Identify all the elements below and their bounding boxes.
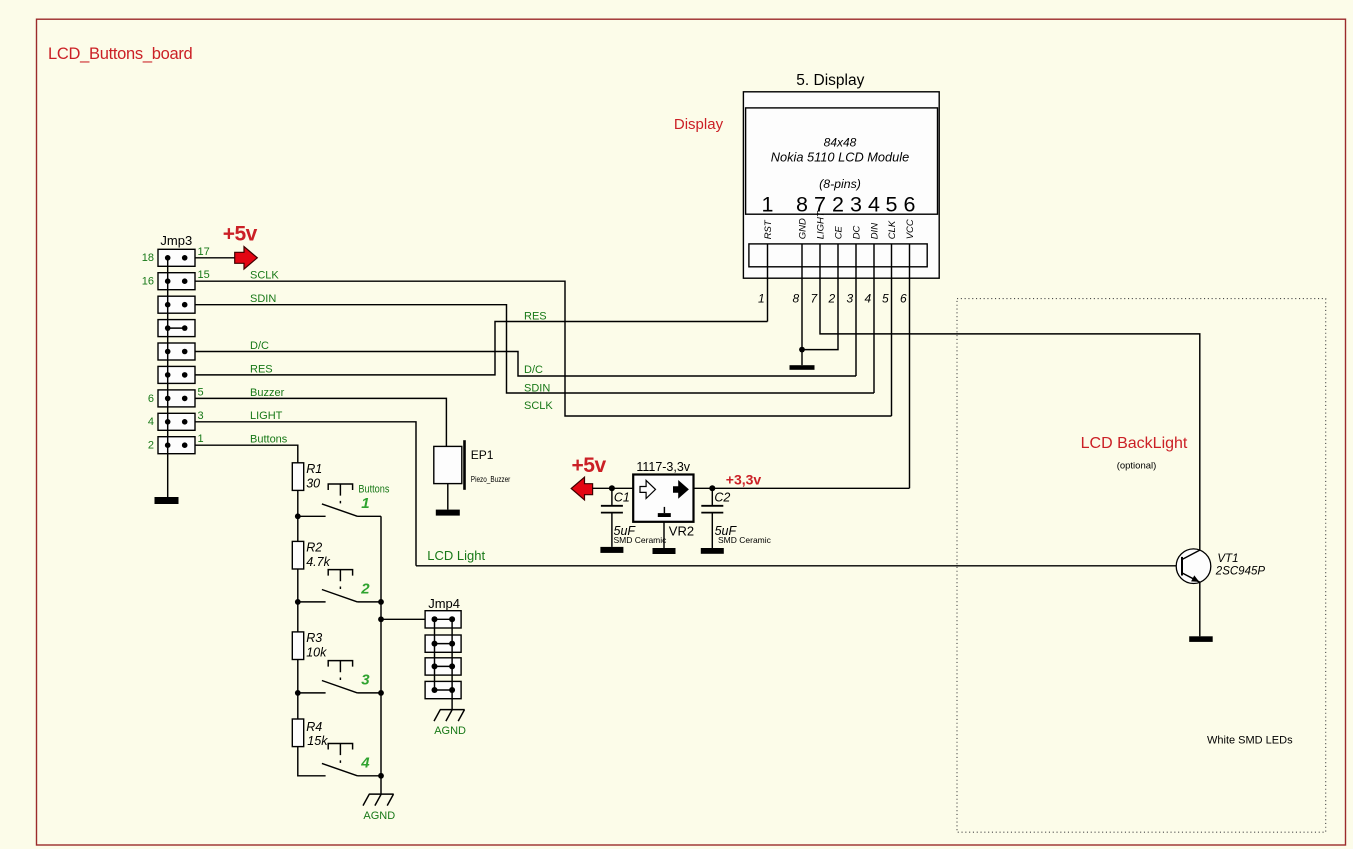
ground AGND Jmp4: [434, 710, 465, 722]
resistor R2: [292, 541, 303, 569]
wire Buttons: [195, 445, 298, 463]
wire pin3 DC: [855, 244, 857, 376]
wire EP1 to ground: [447, 484, 449, 510]
svg-text:5: 5: [198, 386, 204, 398]
svg-text:LCD_Buttons_board: LCD_Buttons_board: [48, 45, 193, 63]
svg-text:5. Display: 5. Display: [796, 72, 864, 89]
ground VR2: [653, 548, 676, 554]
wire VT1 emitter to ground: [1199, 582, 1201, 636]
wire +5v to VR2 input: [593, 487, 634, 489]
svg-text:R1: R1: [306, 462, 322, 476]
LCD connector strip: [749, 244, 927, 267]
svg-text:+5v: +5v: [223, 222, 258, 245]
svg-text:6: 6: [148, 393, 154, 405]
svg-text:6: 6: [900, 292, 907, 306]
connector Jmp4 row 2: [425, 635, 461, 652]
resistor R4: [292, 719, 303, 747]
svg-text:1: 1: [361, 495, 369, 512]
svg-text:2: 2: [828, 292, 836, 306]
svg-text:8: 8: [796, 193, 808, 217]
svg-text:Buttons: Buttons: [358, 483, 389, 495]
wire RES: [195, 322, 768, 375]
ground VT1: [1189, 636, 1213, 642]
svg-text:GND: GND: [797, 218, 808, 239]
svg-text:DIN: DIN: [869, 223, 880, 240]
capacitor C1: [611, 488, 613, 505]
connector Jmp3 row jumper closed: [158, 320, 195, 337]
wire pin2 CE to ground node: [802, 244, 838, 350]
svg-text:4: 4: [865, 292, 872, 306]
svg-text:4: 4: [868, 193, 880, 217]
connector Jmp4 row 3: [425, 658, 461, 675]
wire R4 to switch 4: [298, 747, 326, 776]
regulator VR2 body: [633, 475, 693, 522]
svg-text:2SC945P: 2SC945P: [1215, 565, 1266, 577]
LCD module U-display outer body: [743, 92, 939, 278]
svg-text:SCLK: SCLK: [524, 400, 553, 412]
svg-text:R3: R3: [306, 631, 322, 645]
VR2 input hollow arrow: [640, 480, 656, 498]
VR2 output filled arrow: [673, 480, 689, 499]
wire pin6 VCC: [909, 244, 911, 488]
ground AGND buttons: [363, 794, 394, 806]
ground Jmp3: [155, 497, 179, 504]
svg-text:SCLK: SCLK: [250, 270, 279, 282]
svg-text:1: 1: [762, 193, 774, 217]
svg-text:17: 17: [198, 246, 210, 258]
svg-text:84x48: 84x48: [824, 135, 857, 149]
connector Jmp3 row 15/16: [158, 273, 195, 290]
ground display GND: [801, 350, 803, 366]
wire Buzzer: [195, 398, 446, 446]
svg-text:Nokia 5110 LCD Module: Nokia 5110 LCD Module: [771, 150, 909, 165]
connector Jmp3 row RES: [158, 366, 195, 383]
svg-text:Jmp4: Jmp4: [428, 596, 460, 611]
svg-text:AGND: AGND: [434, 725, 466, 737]
svg-text:CE: CE: [833, 225, 844, 239]
node Jmp4 branch: [378, 616, 384, 622]
LCD module inner screen box: [746, 108, 938, 214]
wire D/C: [195, 352, 856, 377]
svg-text:C2: C2: [714, 490, 730, 504]
svg-text:R2: R2: [306, 541, 322, 555]
svg-text:VR2: VR2: [669, 523, 694, 538]
svg-text:3: 3: [361, 672, 370, 689]
wire LIGHT: [195, 422, 416, 566]
svg-text:2: 2: [832, 193, 844, 217]
connector Jmp4 row 4: [425, 681, 461, 698]
svg-text:VT1: VT1: [1217, 553, 1238, 565]
svg-text:C1: C1: [614, 490, 630, 504]
buzzer EP1 plate: [463, 440, 466, 490]
ground C1: [600, 547, 623, 553]
backlight optional dotted box: [957, 299, 1326, 833]
svg-text:2: 2: [360, 581, 370, 598]
node button1 tap: [295, 513, 301, 519]
svg-text:Piezo_Buzzer: Piezo_Buzzer: [471, 475, 511, 484]
svg-text:(8-pins): (8-pins): [819, 177, 861, 191]
power +5v arrow left: [571, 477, 592, 500]
svg-text:SMD Ceramic: SMD Ceramic: [718, 535, 772, 545]
svg-text:4: 4: [148, 416, 154, 428]
svg-text:30: 30: [306, 477, 320, 491]
svg-text:R4: R4: [306, 720, 322, 734]
svg-text:(optional): (optional): [1117, 460, 1157, 471]
wire pin8 GND: [801, 244, 803, 350]
svg-text:Display: Display: [674, 116, 724, 133]
transistor VT1 collector stroke: [1182, 550, 1200, 559]
wire SCLK: [195, 281, 892, 416]
resistor R3: [292, 632, 303, 660]
svg-text:4.7k: 4.7k: [306, 555, 330, 569]
svg-text:LIGHT: LIGHT: [815, 210, 826, 239]
wire R3 to node 3: [297, 660, 299, 720]
wire +3,3v rail: [694, 487, 910, 489]
svg-text:AGND: AGND: [363, 810, 395, 822]
svg-text:SMD Ceramic: SMD Ceramic: [614, 535, 668, 545]
svg-text:D/C: D/C: [524, 364, 543, 376]
wire +5v feed: [195, 257, 235, 259]
node C1 junction: [609, 485, 615, 491]
wire buttons output bus: [380, 516, 382, 794]
svg-text:RES: RES: [250, 363, 273, 375]
svg-text:18: 18: [142, 252, 154, 264]
connector Jmp3 row SDIN: [158, 296, 195, 313]
svg-text:SDIN: SDIN: [250, 293, 276, 305]
wire pin7 LIGHT to backlight collector: [820, 244, 1200, 550]
transistor VT1 body: [1176, 549, 1211, 584]
svg-text:15: 15: [198, 269, 210, 281]
node SW2 out: [378, 599, 384, 605]
svg-text:RST: RST: [763, 219, 774, 239]
svg-text:3: 3: [198, 410, 204, 422]
connector Jmp3 row 17/18: [158, 249, 195, 266]
svg-text:3: 3: [850, 193, 862, 217]
svg-text:Buttons: Buttons: [250, 434, 288, 446]
connector Jmp3 row 1/2: [158, 437, 195, 454]
svg-text:VCC: VCC: [905, 219, 916, 239]
node SW3 out: [378, 690, 384, 696]
wire LCD Light line: [416, 565, 1182, 567]
svg-text:8: 8: [793, 292, 800, 306]
svg-text:LCD BackLight: LCD BackLight: [1081, 435, 1188, 452]
svg-text:16: 16: [142, 276, 154, 288]
svg-text:SDIN: SDIN: [524, 382, 550, 394]
wire SDIN: [195, 305, 874, 393]
VR2 inner ground mark: [663, 507, 665, 513]
connector Jmp3 row D/C: [158, 343, 195, 360]
node C2 junction: [709, 485, 715, 491]
switch SW2: [298, 590, 381, 602]
resistor R1: [292, 463, 303, 491]
switch SW3: [298, 681, 381, 693]
svg-text:Buzzer: Buzzer: [250, 387, 285, 399]
connector Jmp4 row 1: [425, 611, 461, 628]
svg-text:DC: DC: [851, 225, 862, 239]
svg-text:D/C: D/C: [250, 340, 269, 352]
wire pin5 CLK: [891, 244, 893, 416]
wire VR2 to ground: [663, 522, 665, 548]
transistor VT1 base bar: [1181, 557, 1183, 576]
node button2 tap: [295, 599, 301, 605]
capacitor C2: [711, 488, 713, 505]
switch SW1: [298, 504, 381, 516]
svg-text:1117-3,3v: 1117-3,3v: [636, 460, 690, 474]
wire pin4 DIN: [873, 244, 875, 393]
switch SW4: [322, 763, 381, 775]
ground EP1: [436, 510, 460, 516]
wire Jmp4 branch: [381, 618, 435, 620]
svg-text:Jmp3: Jmp3: [160, 233, 192, 248]
wire pin1 RST: [767, 244, 769, 322]
wire Jmp4 links: [435, 619, 453, 709]
connector Jmp3 row 5/6: [158, 390, 195, 407]
svg-text:White SMD LEDs: White SMD LEDs: [1207, 735, 1293, 747]
node SW4 out: [378, 773, 384, 779]
svg-text:EP1: EP1: [471, 448, 494, 462]
connector Jmp3 row 3/4: [158, 413, 195, 430]
svg-text:4: 4: [360, 755, 370, 772]
svg-text:+3,3v: +3,3v: [726, 472, 762, 488]
svg-text:CLK: CLK: [887, 220, 898, 239]
wire R2 to node 2: [297, 569, 299, 632]
svg-text:15k: 15k: [307, 734, 328, 748]
buzzer EP1 body: [434, 446, 462, 483]
svg-text:5: 5: [882, 292, 889, 306]
svg-text:2: 2: [148, 440, 154, 452]
svg-text:1: 1: [758, 292, 765, 306]
svg-text:+5v: +5v: [572, 454, 607, 477]
svg-text:10k: 10k: [306, 646, 327, 660]
transistor VT1 emitter arrow: [1191, 575, 1199, 582]
ground C2: [701, 548, 724, 554]
svg-text:LIGHT: LIGHT: [250, 410, 283, 422]
node GND junction: [799, 347, 805, 353]
power +5v arrow right: [235, 247, 258, 270]
svg-text:RES: RES: [524, 310, 547, 322]
wire R1 to node 1: [297, 490, 299, 541]
svg-text:3: 3: [847, 292, 854, 306]
svg-text:LCD Light: LCD Light: [427, 548, 485, 563]
svg-text:1: 1: [198, 433, 204, 445]
node button3 tap: [295, 690, 301, 696]
transistor VT1 emitter stroke: [1182, 573, 1200, 582]
svg-text:5: 5: [886, 193, 898, 217]
svg-text:6: 6: [904, 193, 916, 217]
wire Jmp3 common bus: [167, 258, 169, 497]
